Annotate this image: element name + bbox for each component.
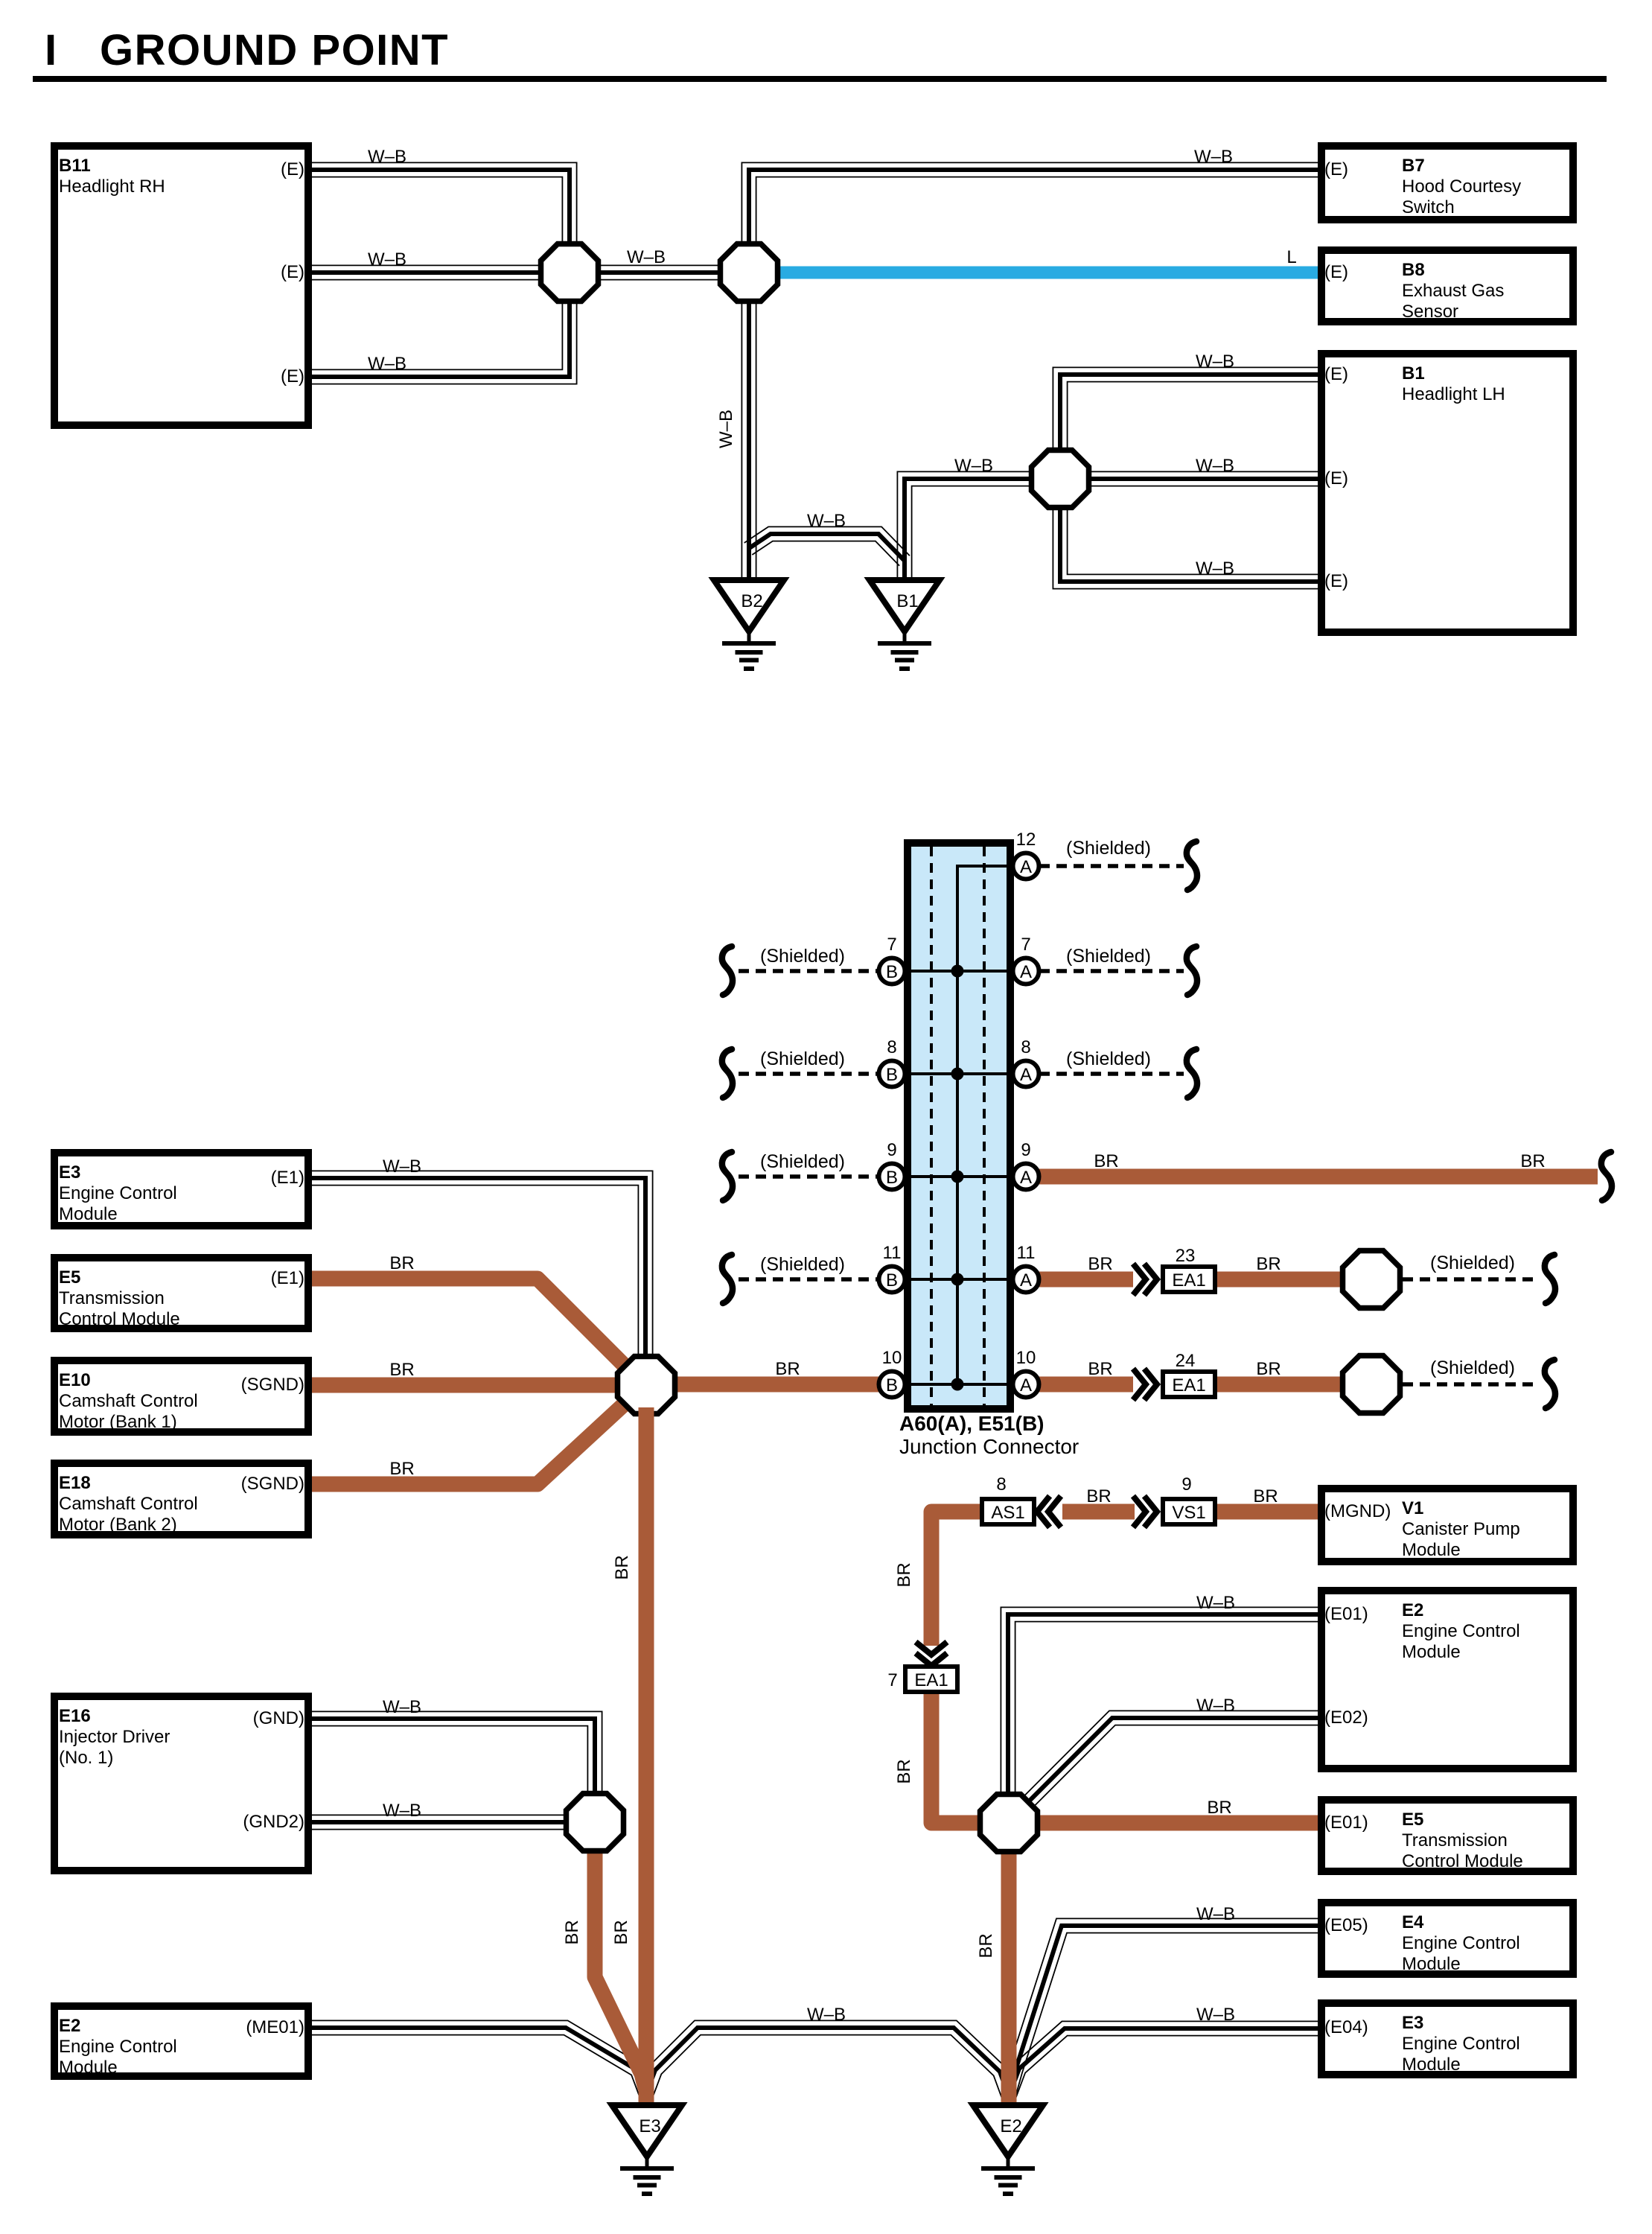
wire E5 (E1) to splice J4 (BR) — [309, 1279, 634, 1375]
wire splice J5 to ground E3 (BR) — [595, 1849, 645, 2089]
svg-text:(SGND): (SGND) — [241, 1474, 304, 1494]
connector V1 Canister Pump Module — [1321, 1489, 1573, 1562]
svg-text:A: A — [1020, 962, 1032, 982]
svg-text:Motor (Bank 2): Motor (Bank 2) — [59, 1515, 177, 1535]
svg-text:W–B: W–B — [716, 410, 736, 448]
svg-text:B1: B1 — [896, 591, 918, 611]
svg-text:(E): (E) — [1324, 571, 1348, 591]
svg-text:Control Module: Control Module — [1402, 1851, 1523, 1871]
svg-text:Module: Module — [1402, 2055, 1461, 2075]
wire splice J1 to splice J2 (W-B) — [593, 265, 725, 279]
svg-text:BR: BR — [1256, 1254, 1281, 1274]
pin 10A junction A10 — [1013, 1348, 1039, 1398]
wire E16 (GND2) to splice J5 (W-B) — [309, 1815, 570, 1829]
svg-text:W–B: W–B — [383, 1156, 421, 1177]
svg-text:E10: E10 — [59, 1370, 91, 1390]
svg-text:8: 8 — [996, 1474, 1006, 1495]
svg-text:I: I — [45, 26, 57, 74]
wire B11 shielded (shielded, dashed) — [739, 1277, 878, 1282]
svg-text:(GND): (GND) — [253, 1708, 304, 1728]
svg-text:7: 7 — [1021, 935, 1030, 955]
connector E16 Injector Driver No.1 — [54, 1696, 308, 1871]
svg-text:Hood Courtesy: Hood Courtesy — [1402, 176, 1521, 197]
title rule — [33, 76, 1607, 82]
wire B11 (E) pin3 to splice J1 (W-B) — [309, 297, 577, 384]
svg-text:10: 10 — [1016, 1348, 1036, 1368]
pin 8B junction B8 — [879, 1037, 905, 1087]
svg-text:EA1: EA1 — [1172, 1270, 1205, 1291]
svg-text:Module: Module — [59, 1204, 118, 1224]
svg-text:A60(A), E51(B): A60(A), E51(B) — [899, 1412, 1044, 1435]
svg-text:Module: Module — [59, 2058, 118, 2078]
svg-text:W–B: W–B — [1196, 456, 1234, 476]
svg-text:Camshaft Control: Camshaft Control — [59, 1494, 198, 1514]
svg-text:A: A — [1020, 857, 1032, 877]
connector E2 Engine Control Module — [54, 2006, 308, 2078]
splice J4 (splice octagon) — [618, 1357, 675, 1414]
svg-text:W–B: W–B — [383, 1801, 421, 1821]
splice J1 (splice octagon) — [541, 244, 599, 302]
wire L (blue) splice J2 to B8 (E) — [774, 267, 1321, 279]
wire splice J4 to junction B10 (BR) — [667, 1377, 880, 1393]
squiggle right row 12 (continuation squiggle) — [1187, 841, 1197, 890]
squiggle right row 9 (continuation squiggle) — [1601, 1152, 1612, 1200]
svg-text:E2: E2 — [59, 2016, 80, 2036]
svg-text:V1: V1 — [1402, 1498, 1423, 1518]
wire AS1 down leg (BR) — [931, 1512, 981, 1646]
svg-text:7: 7 — [887, 1670, 897, 1690]
wire E4 (E05) to ground E2 (W-B) — [1002, 1918, 1321, 2095]
pin 8A junction A8 — [1013, 1037, 1039, 1087]
svg-text:(E02): (E02) — [1324, 1708, 1368, 1728]
svg-text:BR: BR — [612, 1555, 632, 1579]
svg-text:W–B: W–B — [627, 247, 666, 267]
wire E10 (SGND) to splice J4 (BR) — [309, 1378, 625, 1393]
svg-text:BR: BR — [976, 1933, 996, 1958]
chevron male connector VS1 — [1133, 1496, 1157, 1527]
pin 7A junction A7 — [1013, 935, 1039, 984]
svg-text:Injector Driver: Injector Driver — [59, 1727, 170, 1747]
svg-text:EA1: EA1 — [914, 1670, 948, 1690]
junction connector A60(A),E51(B) body — [908, 843, 1010, 1409]
svg-text:BR: BR — [562, 1920, 582, 1944]
svg-text:A: A — [1020, 1168, 1032, 1188]
svg-text:(Shielded): (Shielded) — [760, 1254, 845, 1275]
pin 10B junction B10 — [879, 1348, 905, 1398]
svg-text:9: 9 — [1021, 1140, 1030, 1160]
connector VS1 — [1163, 1499, 1215, 1524]
svg-text:B: B — [886, 1065, 898, 1085]
wire EA1-7 to splice J6 (BR) — [931, 1689, 983, 1823]
svg-text:BR: BR — [1088, 1254, 1112, 1274]
svg-text:BR: BR — [389, 1360, 414, 1380]
connector B1 Headlight LH — [1321, 354, 1573, 632]
svg-text:E3: E3 — [59, 1162, 80, 1183]
svg-text:11: 11 — [883, 1243, 902, 1263]
svg-text:E3: E3 — [639, 2116, 660, 2136]
svg-text:W–B: W–B — [368, 249, 406, 270]
svg-text:VS1: VS1 — [1172, 1503, 1205, 1523]
svg-text:(MGND): (MGND) — [1324, 1501, 1391, 1521]
wire splice J6 to E2 (E02) (W-B) — [1023, 1710, 1321, 1807]
svg-text:BR: BR — [1256, 1359, 1281, 1379]
svg-text:BR: BR — [389, 1459, 414, 1479]
connector EA1 row 11 — [1163, 1267, 1215, 1292]
wire splice J2 down to ground B2 (W-B) — [742, 297, 756, 582]
connector E3 Engine Control Module right — [1321, 2003, 1573, 2075]
ground point B2 — [714, 580, 784, 669]
svg-text:W–B: W–B — [383, 1697, 421, 1717]
wire splice J6 to E5 (E01) (BR) — [1035, 1815, 1321, 1831]
wire B11 (E) pin2 to splice J1 (W-B) — [309, 265, 546, 279]
svg-text:W–B: W–B — [368, 147, 406, 167]
chevron male connector into EA1 row 10 — [1133, 1369, 1157, 1400]
svg-text:W–B: W–B — [1196, 1696, 1235, 1716]
svg-text:(E): (E) — [281, 262, 304, 282]
pin 11B junction B11 — [879, 1243, 905, 1293]
ground point E2 — [973, 2105, 1043, 2194]
svg-text:BR: BR — [1094, 1151, 1118, 1171]
wire row 10 shielded right (shielded, dashed) — [1403, 1382, 1538, 1387]
svg-text:(E04): (E04) — [1324, 2017, 1368, 2037]
svg-text:E16: E16 — [59, 1706, 91, 1726]
connector AS1 — [982, 1499, 1034, 1524]
wire splice J3 to ground B1 (W-B) — [897, 471, 1036, 582]
svg-text:Transmission: Transmission — [1402, 1830, 1508, 1850]
svg-text:B7: B7 — [1402, 156, 1425, 176]
connector B8 Exhaust Gas Sensor — [1321, 250, 1573, 322]
svg-text:W–B: W–B — [1196, 558, 1234, 579]
svg-text:BR: BR — [611, 1920, 631, 1944]
svg-text:(E): (E) — [1324, 159, 1348, 179]
svg-text:(E): (E) — [1324, 364, 1348, 384]
svg-text:(Shielded): (Shielded) — [1430, 1358, 1515, 1378]
wire A11 BR to EA1 (BR) — [1038, 1272, 1133, 1288]
wire E2 (ME01) to ground E3 (W-B) — [309, 2020, 653, 2096]
wire A10 BR to EA1 (BR) — [1038, 1377, 1133, 1393]
svg-text:E5: E5 — [1402, 1810, 1423, 1830]
svg-text:(ME01): (ME01) — [246, 2017, 304, 2037]
wire row 11 shielded right (shielded, dashed) — [1403, 1277, 1538, 1282]
pin 7B junction B7 — [879, 935, 905, 984]
svg-text:A: A — [1020, 1065, 1032, 1085]
wire A7 shielded (shielded, dashed) — [1039, 969, 1184, 973]
svg-text:(Shielded): (Shielded) — [760, 1151, 845, 1172]
svg-text:(Shielded): (Shielded) — [760, 946, 845, 967]
chevron male connector into EA1 row 11 — [1133, 1264, 1157, 1295]
pin 11A junction A11 — [1013, 1243, 1039, 1293]
wire splice J4 down to ground E3 (BR) — [639, 1407, 654, 2111]
svg-text:8: 8 — [1021, 1037, 1030, 1057]
svg-text:23: 23 — [1176, 1246, 1196, 1266]
squiggle right row 11 (continuation squiggle) — [1545, 1255, 1555, 1303]
svg-text:B2: B2 — [741, 591, 762, 611]
connector E5 Transmission Control Module — [54, 1258, 308, 1329]
squiggle right row 8 (continuation squiggle) — [1187, 1049, 1197, 1098]
connector E18 Camshaft Control Motor Bank 2 — [54, 1463, 308, 1535]
svg-text:(E01): (E01) — [1324, 1604, 1368, 1624]
svg-text:Motor (Bank 1): Motor (Bank 1) — [59, 1412, 177, 1432]
svg-text:(E): (E) — [1324, 262, 1348, 282]
svg-text:Headlight RH: Headlight RH — [59, 176, 165, 197]
svg-text:E4: E4 — [1402, 1912, 1424, 1932]
connector EA1 row 10 — [1163, 1372, 1215, 1397]
connector E10 Camshaft Control Motor Bank 1 — [54, 1361, 308, 1432]
wire A9 BR to right (BR) — [1038, 1169, 1598, 1185]
ground point E3 — [612, 2105, 682, 2194]
svg-text:12: 12 — [1016, 830, 1036, 850]
svg-text:E18: E18 — [59, 1473, 91, 1493]
svg-text:B8: B8 — [1402, 260, 1425, 280]
wire EA1 to splice row 11 (BR) — [1216, 1272, 1348, 1288]
svg-text:W–B: W–B — [1196, 1904, 1235, 1924]
wire VS1 to V1 (MGND) (BR) — [1216, 1504, 1321, 1520]
svg-text:Headlight LH: Headlight LH — [1402, 384, 1505, 404]
svg-text:E3: E3 — [1402, 2013, 1423, 2033]
svg-text:BR: BR — [1253, 1486, 1278, 1506]
svg-text:B1: B1 — [1402, 363, 1425, 384]
svg-text:B11: B11 — [59, 156, 91, 176]
svg-text:W–B: W–B — [807, 2005, 846, 2025]
svg-text:BR: BR — [1520, 1151, 1545, 1171]
pin 9A junction A9 — [1013, 1140, 1039, 1190]
svg-text:A: A — [1020, 1270, 1032, 1291]
svg-text:11: 11 — [1017, 1243, 1036, 1263]
svg-text:B: B — [886, 962, 898, 982]
chevron male connector into EA1 no.7 — [916, 1642, 947, 1666]
svg-text:Control Module: Control Module — [59, 1309, 180, 1329]
svg-text:Module: Module — [1402, 1954, 1461, 1974]
svg-text:BR: BR — [894, 1562, 914, 1587]
svg-text:(E01): (E01) — [1324, 1813, 1368, 1833]
squiggle left row 9 (continuation squiggle) — [722, 1152, 733, 1200]
ground point B1 — [870, 580, 940, 669]
svg-text:Engine Control: Engine Control — [59, 2037, 177, 2057]
connector E3 Engine Control Module — [54, 1153, 308, 1226]
svg-text:B: B — [886, 1270, 898, 1291]
wire AS1 to VS1 (BR) — [1062, 1504, 1135, 1520]
wire A12 shielded (shielded, dashed) — [1039, 864, 1184, 868]
splice J5 (splice octagon) — [567, 1794, 624, 1851]
pin 9B junction B9 — [879, 1140, 905, 1190]
svg-text:(E): (E) — [281, 159, 304, 179]
svg-text:BR: BR — [894, 1759, 914, 1783]
svg-text:Exhaust Gas: Exhaust Gas — [1402, 281, 1504, 301]
svg-text:B: B — [886, 1375, 898, 1396]
splice J2 (splice octagon) — [721, 244, 778, 302]
wire B11 (E) pin1 to splice J1 (W-B) — [309, 162, 577, 248]
svg-text:W–B: W–B — [1196, 1593, 1235, 1613]
squiggle left row 11 (continuation squiggle) — [722, 1255, 733, 1303]
svg-text:W–B: W–B — [1194, 147, 1233, 167]
svg-text:Engine Control: Engine Control — [1402, 2034, 1520, 2054]
wire B7 shielded (shielded, dashed) — [739, 969, 878, 973]
svg-text:W–B: W–B — [807, 511, 846, 531]
squiggle right row 7 (continuation squiggle) — [1187, 946, 1197, 995]
wire ground E2 to E3 (E04) (W-B) — [1002, 2021, 1321, 2098]
svg-text:(Shielded): (Shielded) — [1430, 1253, 1515, 1273]
svg-text:(No. 1): (No. 1) — [59, 1748, 113, 1768]
svg-text:BR: BR — [389, 1253, 414, 1273]
junction connector internal bus — [892, 866, 1026, 1391]
svg-text:8: 8 — [887, 1037, 896, 1057]
svg-text:W–B: W–B — [368, 354, 406, 374]
wire splice J6 down to ground E2 (BR) — [1001, 1850, 1017, 2111]
svg-text:Module: Module — [1402, 1642, 1461, 1662]
wire B9 shielded (shielded, dashed) — [739, 1174, 878, 1179]
connector E4 Engine Control Module — [1321, 1903, 1573, 1974]
svg-text:BR: BR — [1086, 1486, 1111, 1506]
svg-text:Engine Control: Engine Control — [1402, 1933, 1520, 1953]
svg-text:Transmission: Transmission — [59, 1288, 165, 1308]
squiggle left row 8 (continuation squiggle) — [722, 1049, 733, 1098]
svg-text:(E): (E) — [1324, 468, 1348, 489]
svg-text:(E1): (E1) — [271, 1168, 304, 1188]
connector B11 Headlight RH — [54, 146, 308, 425]
svg-text:B: B — [886, 1168, 898, 1188]
squiggle left row 7 (continuation squiggle) — [722, 946, 733, 995]
svg-text:(E): (E) — [281, 366, 304, 386]
svg-text:E2: E2 — [1000, 2116, 1021, 2136]
chevron female connector AS1 — [1037, 1496, 1061, 1527]
splice J6 (splice octagon) — [980, 1795, 1038, 1852]
wire A8 shielded (shielded, dashed) — [1039, 1072, 1184, 1076]
wire E16 (GND) to splice J5 (W-B) — [309, 1711, 602, 1798]
svg-text:(Shielded): (Shielded) — [1066, 946, 1151, 967]
svg-text:24: 24 — [1176, 1351, 1196, 1371]
svg-text:Engine Control: Engine Control — [1402, 1621, 1520, 1641]
svg-text:Canister Pump: Canister Pump — [1402, 1519, 1520, 1539]
svg-text:L: L — [1286, 247, 1296, 267]
pin 12A junction A12 — [1013, 830, 1039, 879]
svg-text:EA1: EA1 — [1172, 1375, 1205, 1396]
svg-text:BR: BR — [1207, 1798, 1231, 1818]
svg-text:AS1: AS1 — [991, 1503, 1024, 1523]
svg-text:E5: E5 — [59, 1267, 80, 1288]
wire splice J3 to B1 (E) pin2 (W-B) — [1084, 471, 1321, 486]
connector EA1 no.7 — [905, 1667, 957, 1692]
svg-text:Camshaft Control: Camshaft Control — [59, 1391, 198, 1411]
wire ground E3 to ground E2 (W-B) — [640, 2020, 1015, 2098]
svg-text:10: 10 — [882, 1348, 902, 1368]
svg-text:(Shielded): (Shielded) — [1066, 838, 1151, 859]
wire B1 (E) pin1 to splice J3 (W-B) — [1053, 367, 1321, 454]
connector E2 Engine Control Module right — [1321, 1591, 1573, 1769]
splice J3 (splice octagon) — [1032, 451, 1089, 508]
svg-text:W–B: W–B — [1196, 351, 1234, 372]
connector E5 Transmission Control Module right — [1321, 1800, 1573, 1871]
connector B7 Hood Courtesy Switch — [1321, 146, 1573, 220]
wire E18 (SGND) to splice J4 (BR) — [309, 1396, 634, 1484]
svg-text:A: A — [1020, 1375, 1032, 1396]
wire splice J2 to B7 (E) (W-B) — [742, 162, 1321, 248]
splice row 10 (splice octagon) — [1343, 1356, 1400, 1413]
svg-text:9: 9 — [1181, 1474, 1191, 1495]
svg-text:GROUND POINT: GROUND POINT — [100, 26, 449, 74]
splice row 11 (splice octagon) — [1343, 1251, 1400, 1308]
wire B8 shielded (shielded, dashed) — [739, 1072, 878, 1076]
svg-text:W–B: W–B — [1196, 2005, 1235, 2025]
svg-text:Switch: Switch — [1402, 197, 1455, 217]
wire splice J6 to E2 (E01) (W-B) — [1001, 1607, 1321, 1798]
wire EA1 to splice row 10 (BR) — [1216, 1377, 1348, 1393]
svg-text:9: 9 — [887, 1140, 896, 1160]
svg-text:E2: E2 — [1402, 1600, 1423, 1620]
svg-text:(E05): (E05) — [1324, 1915, 1368, 1935]
svg-text:7: 7 — [887, 935, 896, 955]
svg-text:(SGND): (SGND) — [241, 1375, 304, 1395]
svg-text:Module: Module — [1402, 1540, 1461, 1560]
svg-text:BR: BR — [1088, 1359, 1112, 1379]
svg-text:W–B: W–B — [954, 456, 993, 476]
svg-text:Sensor: Sensor — [1402, 302, 1458, 322]
svg-text:Engine Control: Engine Control — [59, 1183, 177, 1203]
svg-text:(Shielded): (Shielded) — [760, 1048, 845, 1069]
svg-text:Junction Connector: Junction Connector — [899, 1435, 1079, 1458]
wire B1 (E) pin3 to splice J3 (W-B) — [1053, 503, 1321, 589]
squiggle right row 10 (continuation squiggle) — [1545, 1360, 1555, 1408]
svg-text:(Shielded): (Shielded) — [1066, 1048, 1151, 1069]
svg-text:(E1): (E1) — [271, 1268, 304, 1288]
wire E3 (E1) to splice J4 (W-B) — [309, 1171, 653, 1363]
svg-text:(GND2): (GND2) — [243, 1812, 304, 1832]
svg-text:BR: BR — [775, 1359, 800, 1379]
wire jog ground B2 to ground B1 (W-B) — [744, 526, 910, 565]
